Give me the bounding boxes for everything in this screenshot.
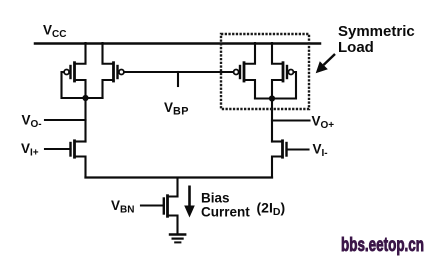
svg-text:(2ID): (2ID) [257, 200, 286, 219]
svg-text:Symmetric: Symmetric [338, 23, 415, 40]
svg-text:Bias: Bias [201, 191, 230, 206]
svg-text:bbs.eetop.cn: bbs.eetop.cn [341, 235, 424, 256]
svg-text:Current: Current [201, 205, 250, 220]
svg-text:Load: Load [338, 39, 374, 56]
